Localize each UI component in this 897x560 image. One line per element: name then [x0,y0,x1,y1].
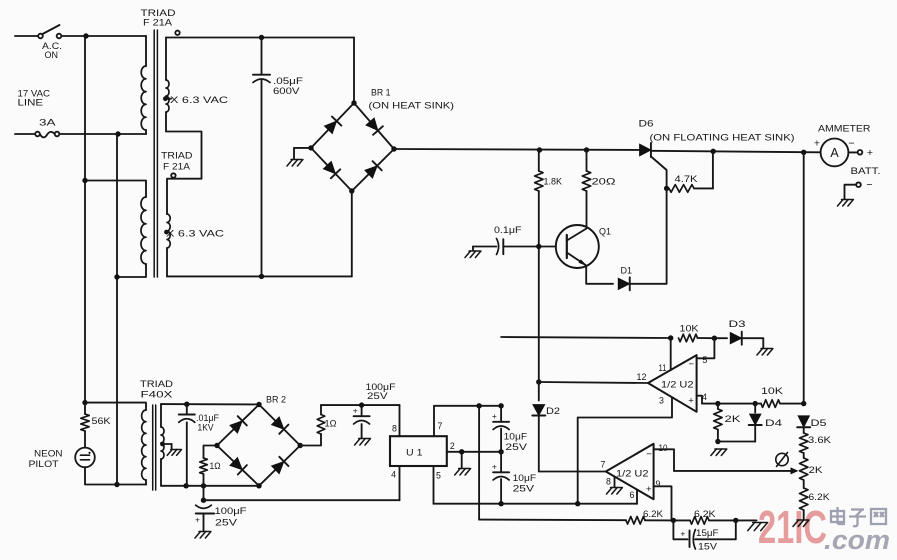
diode D5 [797,416,810,427]
wire 10K right to D3 [698,337,715,339]
transformer F40X secondary [161,404,164,486]
diode BR1 bottom-left [323,161,340,178]
label U2b minus [646,449,652,460]
label U1 pin7 [438,421,443,431]
label 10uF lower [513,473,537,494]
svg-text:10K: 10K [680,324,700,335]
wire 1 ohm to U1 pin8 [321,402,400,407]
label TRIAD F21A upper [141,8,176,29]
svg-text:1KV: 1KV [198,422,215,432]
capacitor 10uF lower [493,472,509,480]
terminal dot T1 secondary [175,31,179,35]
label 3.6K [808,435,832,446]
ground batt minus [838,200,854,207]
watermark .com text [824,525,890,555]
ground U1 pin2 [455,469,471,476]
svg-text:10μF: 10μF [504,431,528,441]
svg-text:+: + [492,462,497,472]
diode D4 [749,404,762,442]
potentiometer 2K [800,458,808,488]
node F40X center tap [160,442,172,447]
label NEON PILOT [29,448,63,469]
label U2a pin11 [659,363,667,373]
label 1.8K [544,177,563,188]
label 100uF top [366,382,396,402]
wire D2 to U2b output [539,417,606,472]
screwdriver adjust symbol [776,453,788,467]
terminal batt minus [856,182,861,187]
svg-text:56K: 56K [92,416,112,427]
svg-text:−: − [848,138,854,150]
svg-text:+: + [814,138,820,150]
label U1 pin5 [436,471,441,481]
svg-text:1.8K: 1.8K [544,177,563,188]
label 10K feedback [680,324,700,335]
wire 4.7K to rail [712,151,714,188]
wire bottom-left rail to U1 pin4 [204,499,400,501]
label 6.2K left [643,509,664,520]
svg-text:1/2 U2: 1/2 U2 [661,380,694,391]
resistor 10K pin4 [761,400,804,408]
svg-text:10: 10 [659,443,668,453]
svg-text:0.1μF: 0.1μF [494,225,522,236]
transformer T2 secondary [167,214,170,276]
svg-text:6.2K: 6.2K [694,509,716,520]
label U1 [406,448,423,459]
svg-text:LINE: LINE [18,98,44,109]
svg-text:(ON HEAT SINK): (ON HEAT SINK) [369,101,455,112]
diode D6 [640,143,652,157]
svg-text:7: 7 [601,459,606,469]
ground 6.2K chain [793,520,809,527]
svg-text:7: 7 [438,421,443,431]
terminal dot T2 secondary [171,173,175,177]
svg-text:(ON FLOATING HEAT SINK): (ON FLOATING HEAT SINK) [650,133,795,143]
wire secondary series link [166,112,202,214]
wire Q1 emitter to D1 [586,267,613,284]
label X 6.3 VAC upper [170,95,228,106]
wire batt minus to ground [845,185,857,199]
svg-text:+: + [867,147,873,159]
label U2a pin4 [702,392,707,402]
wire U1 pin2 ground stub [461,452,463,468]
diode BR2 bottom-left [230,458,247,475]
label U2a pin12 [637,372,647,382]
label 10uF upper plus [492,411,497,421]
svg-text:600V: 600V [273,86,300,97]
wire T2 secondary bottom to BR1 [167,274,352,279]
svg-text:1/2 U2: 1/2 U2 [616,468,649,479]
svg-text:AMMETER: AMMETER [818,123,871,134]
label 10uF upper [504,431,528,452]
svg-text:9: 9 [656,479,661,489]
node bottom-left junction [201,498,206,503]
wire 10K to pin7 net [501,335,673,340]
wire U1 pin8 [399,405,401,436]
label TRIAD F40X [140,379,173,401]
label 17 VAC LINE [18,89,51,109]
wire D6 cathode to 4.7K [651,157,669,192]
wire F40X tap ground stub [171,444,173,449]
ground BR1 [287,160,303,167]
label U2a 1/2 U2 [661,380,694,391]
diode BR2 bottom-right [272,457,289,474]
svg-text:100μF: 100μF [215,506,247,517]
svg-text:F40X: F40X [141,390,174,401]
svg-text:2: 2 [450,441,455,451]
svg-text:+: + [680,529,685,539]
transformer T1 primary [141,36,146,134]
label 1 ohm right [325,418,337,428]
label D1 [621,266,633,277]
resistor 10K feedback [679,334,698,342]
wire BR1 AC top lead [353,38,355,104]
node Q1 base junction [536,244,541,249]
label Q1 [599,227,611,238]
svg-text:8: 8 [392,424,397,434]
label U2a plus [688,396,694,407]
svg-text:15V: 15V [698,542,718,552]
fuse 3A [35,132,59,138]
ground 100uF bottom [195,532,211,539]
label .01uF 1KV [196,413,219,432]
wire U1 pin5 [433,466,435,504]
resistor 3.6K [800,428,808,458]
resistor 4.7K [669,185,713,193]
svg-text:BATT.: BATT. [851,166,881,177]
svg-text:TRIAD: TRIAD [140,379,173,390]
resistor 2K fixed [714,404,722,445]
svg-text:Q1: Q1 [599,227,611,238]
wire 10uF stack [500,406,502,504]
label X 6.3 VAC lower [166,229,224,240]
label 100uF bottom plus [195,515,200,525]
ground rail B [748,523,768,531]
wire U2a output to D2 node [536,379,648,384]
label ON HEAT SINK [369,101,455,112]
ground D3 [757,349,773,356]
wire rail B [479,519,626,522]
svg-text:1Ω: 1Ω [325,418,337,428]
node T1 center tap 6.3VAC [163,96,171,101]
arrow Q1 emitter [579,259,588,266]
wire U2b pin10 to wiper [654,449,674,471]
resistor 6.2K left [626,517,676,525]
wire U2b pin9 to rail B [654,486,672,520]
label D3 [729,319,746,330]
wire U2b pin6 stub [636,490,638,504]
svg-text:D5: D5 [811,418,827,429]
svg-text:3.6K: 3.6K [808,435,832,446]
resistor 1.8K [535,150,543,247]
wire U2b pin8 stub [614,477,616,487]
svg-text:−: − [646,449,652,460]
wire main DC rail [394,147,640,152]
ground F40X tap [167,450,181,456]
label 2K fixed [725,414,742,425]
diode BR1 top-left [324,117,341,134]
ground 100uF top [355,439,371,446]
svg-text:8: 8 [606,476,611,486]
label 3A [39,118,56,129]
ground 0.1uF [465,251,481,258]
wire F40X secondary bottom rail [161,483,259,488]
wire rail B to ground [736,519,757,521]
label 0.1uF [494,225,522,236]
svg-text:PILOT: PILOT [29,459,59,470]
label 15uF plus [680,529,685,539]
resistor 20 ohm [582,150,590,226]
label 15V [698,542,718,552]
wire fuse to T1 primary bottom [59,131,146,136]
capacitor 0.1uF [473,239,556,255]
resistor 6.2K lower right [800,488,808,519]
label 56K [92,416,112,427]
label TRIAD F21A lower [161,151,193,173]
label U2a pin3 [659,395,664,405]
node 10K right [712,336,717,341]
label U2b pin9 [656,479,661,489]
label U1 pin8 [392,424,397,434]
wire left AC vertical bus [84,36,86,403]
svg-text:D2: D2 [546,406,560,417]
svg-text:ON: ON [45,50,59,61]
wire rail to D5 chain [801,152,806,406]
wire ammeter to batt plus [848,151,857,153]
label D5 [811,418,827,429]
svg-text:25V: 25V [215,518,238,529]
svg-text:6.2K: 6.2K [643,509,664,520]
svg-text:+: + [195,515,200,525]
diode D3 [714,332,763,348]
transformer core T1 T2 [154,30,157,277]
svg-text:25V: 25V [513,484,536,494]
svg-text:12: 12 [637,372,647,382]
wire U1 pin4 [399,466,401,500]
svg-text:+: + [688,396,694,407]
label U2a minus [689,359,695,370]
wire BR1 to ground [294,148,311,159]
label U2b pin6 [630,490,635,500]
resistor 1 ohm left [200,446,217,501]
wire AC line bottom left segment [15,133,35,135]
ground U2b pin8 [607,488,623,495]
capacitor 10uF upper [493,422,509,430]
wire pin7 net vertical [478,406,480,520]
svg-text:4: 4 [391,470,396,480]
resistor 6.2K right [673,517,738,525]
terminal batt plus [858,150,863,155]
ground 2K D4 [711,449,727,456]
transistor Q1 [556,225,599,268]
watermark CJK text [831,507,886,526]
label AMMETER [818,123,871,134]
diode BR2 top-left [230,416,247,433]
svg-text:A: A [830,146,839,160]
svg-text:10K: 10K [761,386,784,397]
transformer core F40X [153,405,156,490]
svg-text:U 1: U 1 [406,448,423,459]
node T2 center tap 6.3VAC [164,230,169,235]
svg-text:1Ω: 1Ω [210,461,221,471]
svg-text:25V: 25V [505,442,528,452]
svg-text:X 6.3 VAC: X 6.3 VAC [170,95,228,106]
svg-text:F 21A: F 21A [163,162,191,173]
label U2b 1/2 U2 [616,468,649,479]
svg-text:.com: .com [824,525,890,555]
wire U1 pin2 [447,449,504,454]
svg-text:D6: D6 [639,119,654,130]
label U2b pin8 [606,476,611,486]
op-amp U2a 1/2 U2 [648,355,697,412]
wire rail A pin5 to pin6 [434,501,638,506]
svg-text:F 21A: F 21A [143,18,173,29]
svg-text:D3: D3 [729,319,746,330]
label 100uF top plus [353,406,358,416]
svg-text:NEON: NEON [34,448,63,459]
svg-text:4.7K: 4.7K [675,174,699,184]
svg-text:+: + [353,406,358,416]
svg-text:6.2K: 6.2K [809,492,831,503]
svg-text:11: 11 [659,363,667,373]
svg-text:2K: 2K [809,465,824,476]
svg-text:BR 2: BR 2 [266,395,286,406]
svg-text:15μF: 15μF [696,528,719,538]
transformer F40X primary [85,403,146,485]
wire 1.8K node down to D2 node [538,247,540,383]
label 10K pin4 [761,386,784,397]
wire rail D6 to ammeter [651,149,821,155]
label 15uF [696,528,719,538]
capacitor 100uF top [354,405,370,437]
label U1 pin4 [391,470,396,480]
svg-text:BR 1: BR 1 [371,88,391,99]
diode D1 [618,277,630,290]
label 6.2K lower right [809,492,831,503]
wire D4 bottom to 2K bottom [718,441,755,443]
label BR2 [266,395,286,406]
node F40X top [82,400,87,405]
label A.C. ON [42,41,62,61]
transformer T1 secondary [166,38,169,113]
svg-text:3: 3 [659,395,664,405]
arrow 2K wiper [674,467,799,474]
svg-text:20Ω: 20Ω [592,177,616,188]
svg-text:TRIAD: TRIAD [161,151,193,162]
wire AC line top left segment [15,35,38,37]
wire pin5 from 10K node [697,338,715,358]
label 100uF bottom [215,506,247,529]
resistor 1 ohm right [300,405,325,445]
label 2K pot [809,465,824,476]
label 6.2K right [694,509,716,520]
ammeter A [821,139,849,167]
label U1 pin2 [450,441,455,451]
svg-text:2K: 2K [725,414,742,425]
wire D1 to 4.7K node [630,188,667,283]
svg-text:5: 5 [702,355,707,365]
svg-text:X 6.3 VAC: X 6.3 VAC [166,229,224,240]
label .05uF 600V [273,76,303,97]
label 4.7K [675,174,699,184]
label BATT [851,166,881,177]
diode BR1 top-right [366,118,383,135]
label D6 [639,119,654,130]
watermark 21IC logo [758,501,827,553]
wire U1 pin7 [434,403,504,436]
label D4 [765,418,782,429]
label U2b plus [646,484,652,495]
wire U2a pin3 to rail A [578,397,672,503]
label batt minus [866,179,872,191]
wire switch to T1 primary top [61,33,146,38]
wire U2a pin11 stub [670,338,672,370]
svg-text:25V: 25V [367,391,388,402]
op-amp U2b 1/2 U2 [606,444,654,499]
label 10uF lower plus [492,462,497,472]
diode D2 [532,382,545,416]
wire T1 secondary top to BR1 [166,35,354,40]
switch A.C. ON [38,25,61,38]
transformer T2 primary [82,178,146,280]
label U2a pin5 [702,355,707,365]
capacitor .01uF 1KV [179,404,195,486]
capacitor 15uF 15V [673,520,735,549]
wire mid AC vertical bus [116,134,118,485]
svg-text:10μF: 10μF [513,473,537,483]
label ammeter minus [848,138,854,150]
label BR1 [371,88,391,99]
label batt plus [867,147,873,159]
svg-text:−: − [866,179,872,191]
svg-text:−: − [689,359,695,370]
diode BR1 bottom-right [365,161,382,178]
svg-text:+: + [492,411,497,421]
capacitor .05uF 600V [253,38,270,277]
svg-text:D1: D1 [621,266,633,277]
wire F40X secondary top rail [161,402,259,407]
IC U1 [390,436,447,466]
svg-text:+: + [646,484,652,495]
svg-text:5: 5 [436,471,441,481]
label ammeter plus [814,138,820,150]
label 20 ohm [592,177,616,188]
diode BR2 top-right [272,417,289,434]
label D2 [546,406,560,417]
bridge rectifier BR2 [214,402,303,489]
resistor 56K [81,403,89,448]
svg-text:6: 6 [630,490,635,500]
wire U2a pin4 net [697,396,761,407]
svg-text:3A: 3A [39,118,56,129]
neon pilot lamp [75,448,95,468]
bridge rectifier BR1 [308,100,396,193]
wire neon to bottom rail [85,467,146,487]
wire BR1 bottom lead [351,191,353,276]
svg-text:D4: D4 [765,418,782,429]
label ON FLOATING HEAT SINK [650,133,795,143]
label U2b pin7 [601,459,606,469]
capacitor 100uF bottom [196,500,214,530]
label 1 ohm left [210,461,221,471]
label U2b pin10 [659,443,668,453]
